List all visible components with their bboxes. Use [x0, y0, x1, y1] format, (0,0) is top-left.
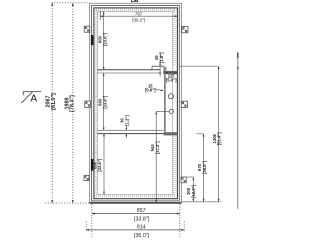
section marker A	[22, 92, 42, 105]
dim 600 lower glass	[93, 134, 105, 195]
handle circle	[169, 109, 173, 113]
svg-text:[1.8"]: [1.8"]	[159, 52, 164, 63]
svg-text:[5.0"]: [5.0"]	[166, 78, 177, 83]
right connector at lock top	[179, 65, 218, 67]
svg-text:[51.4"]: [51.4"]	[217, 132, 222, 146]
left dim 1989 text	[64, 95, 75, 112]
svg-text:914: 914	[137, 224, 146, 230]
lock stile inner edge	[164, 74, 166, 132]
svg-text:[23.6"]: [23.6"]	[102, 95, 107, 109]
lock box upper thick bar	[163, 71, 177, 74]
svg-text:[81.0"]: [81.0"]	[51, 93, 57, 110]
svg-text:[0.6"]: [0.6"]	[145, 88, 156, 93]
right side baseline extension	[181, 201, 221, 203]
lower rail	[97, 129, 163, 131]
glass opening inner boundary	[97, 11, 172, 194]
hinge bar bottom left	[91, 159, 93, 171]
svg-text:[23.6"]: [23.6"]	[97, 158, 102, 172]
leaf hatch band left	[95, 8, 98, 194]
anchor square left bottom	[84, 175, 89, 180]
right dim far extension line	[237, 53, 239, 209]
lock box lower thick bar	[164, 132, 178, 135]
bottom dim 857	[92, 208, 180, 223]
right connector at bottom square	[186, 176, 193, 178]
anchor square right bottom	[181, 177, 186, 183]
door bottom sill thick line	[90, 202, 182, 204]
hinge bar top left	[91, 35, 93, 45]
left dim 2067 text	[46, 93, 57, 110]
svg-text:[26.6"]: [26.6"]	[202, 160, 207, 174]
leaf hatch band top	[95, 8, 176, 11]
svg-text:[33.8"]: [33.8"]	[134, 217, 150, 223]
svg-text:A: A	[30, 93, 37, 104]
leaf hatch band right lower	[173, 135, 176, 194]
dim 15 leader	[145, 84, 164, 93]
svg-text:767: 767	[135, 11, 143, 16]
upper rail	[97, 69, 160, 71]
svg-text:[36.0"]: [36.0"]	[134, 233, 150, 239]
dim 127 lock stile	[165, 72, 177, 83]
right dim 305	[186, 177, 196, 202]
svg-text:857: 857	[137, 208, 146, 214]
lock box top plate	[152, 65, 164, 67]
svg-text:[1.2"]: [1.2"]	[124, 115, 129, 126]
left dim 2067 dotted line	[51, 3, 53, 204]
anchor square left top	[84, 26, 90, 32]
top dim 767	[100, 11, 178, 23]
right dim 1306	[212, 66, 222, 201]
anchor square right middle	[181, 101, 187, 107]
bottom dotted extensions	[91, 204, 93, 238]
right dim 675	[197, 134, 207, 202]
dim 600 middle glass	[97, 73, 107, 130]
dim 45 lock	[154, 52, 164, 77]
left dim 1989 dotted line	[72, 3, 74, 203]
right connector at lower rail	[197, 133, 204, 135]
deadbolt circle	[168, 94, 173, 99]
door frame inner rectangle	[92, 6, 180, 201]
dotted extension bottom left	[45, 202, 91, 204]
bottom dim 914	[86, 224, 184, 239]
dim 30 lower rail	[120, 115, 130, 138]
dim 944 handle height	[150, 111, 169, 202]
door leaf outline	[94, 8, 177, 199]
leaf hatch band bottom	[95, 194, 176, 197]
svg-text:[23.6"]: [23.6"]	[102, 32, 107, 46]
svg-text:[78.3"]: [78.3"]	[70, 95, 76, 112]
anchor square right top	[182, 27, 188, 33]
svg-text:[37.2"]: [37.2"]	[155, 141, 160, 155]
svg-text:[12.0"]: [12.0"]	[191, 184, 196, 198]
leaf hatch band right upper	[173, 8, 176, 66]
svg-text:[30.2"]: [30.2"]	[132, 18, 145, 23]
door frame outer rectangle	[90, 3, 182, 203]
anchor square top center (clipped)	[132, 0, 138, 2]
dim 600 upper glass	[97, 11, 107, 69]
dotted extension top left	[52, 2, 90, 4]
anchor square left middle	[85, 101, 91, 107]
